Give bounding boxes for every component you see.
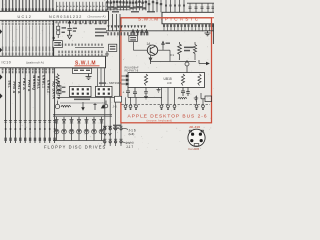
svg-text:SEL: SEL xyxy=(7,80,11,88)
wire horizontal feeding connector verticals xyxy=(57,96,122,98)
circled component with arrow x57 xyxy=(55,101,59,109)
down arrow mid block xyxy=(82,102,84,110)
svg-text:J-1 7: J-1 7 xyxy=(126,145,133,149)
wire vertical x119.5 long xyxy=(119,31,121,98)
circle with stem x106 xyxy=(104,101,108,108)
label fuse rating xyxy=(184,47,194,52)
fuse F1 zigzag element xyxy=(178,42,182,60)
small box above J-5 xyxy=(115,96,122,102)
svg-text:(jaaknndi-A): (jaaknndi-A) xyxy=(26,60,44,64)
tiny text block right of C41 xyxy=(95,28,107,36)
svg-text:ENBL2: ENBL2 xyxy=(47,80,51,93)
diode row A right block xyxy=(55,120,103,124)
small box left of red edge xyxy=(109,44,117,51)
wire vertical bus at x53.5 xyxy=(53,20,55,56)
component blobs in top cluster row 1 xyxy=(106,1,147,4)
rotated floppy signal name labels xyxy=(7,75,60,100)
svg-text:(left): (left) xyxy=(129,132,135,136)
svg-text:APPLE DESKTOP BUS 2-6: APPLE DESKTOP BUS 2-6 xyxy=(128,113,208,119)
pin number smear row UC12 top-left xyxy=(2,8,54,11)
scan speckle texture xyxy=(0,0,214,150)
red annotation box around ADB section xyxy=(121,18,212,123)
leader arrow to J-16 label xyxy=(123,128,129,131)
small box lower right inside red xyxy=(201,93,212,102)
power triangle filled xyxy=(101,104,106,108)
stub smear row below y31 xyxy=(107,32,148,35)
wire verticals SWIM to footprint 2 xyxy=(98,68,105,86)
connector entry marks row y121 left block xyxy=(4,121,56,123)
mini-DIN key notch xyxy=(194,144,199,146)
mini-DIN shoulder tabs xyxy=(189,130,203,132)
wire verticals filter box to ADB pins xyxy=(162,88,175,102)
capacitor pair below filter middle xyxy=(181,88,190,97)
wire horizontal rail y115 right block xyxy=(53,114,112,116)
blobs top right cluster x148-162 xyxy=(148,1,162,5)
wire verticals right block to floppy drives xyxy=(57,117,102,141)
bus entry triangle left edge lower xyxy=(0,93,3,98)
svg-text:(mouse, keyboard): (mouse, keyboard) xyxy=(147,119,173,123)
red underline S.W.I.M xyxy=(75,65,100,67)
wire horizontal rail y116.5 right block xyxy=(53,116,112,118)
diode below Q1 xyxy=(149,55,152,64)
svg-text:WRREQ: WRREQ xyxy=(32,75,36,90)
pin number smear row UC12 bottom-left xyxy=(2,21,54,25)
filter input pins with arrows xyxy=(122,75,129,85)
resistor element right xyxy=(193,42,196,60)
down arrow row below NCR right xyxy=(107,25,145,28)
wire horizontal y30.8 below PIC xyxy=(154,30,214,32)
circle component above filter xyxy=(185,60,189,73)
svg-text:UC12: UC12 xyxy=(18,15,33,19)
wire pin comb UC12 top-right pins xyxy=(57,2,108,12)
power arrow +5 for fuse xyxy=(162,42,165,49)
transistor Q1 xyxy=(147,45,157,55)
wire horizontal y9.8 top cluster xyxy=(106,9,130,11)
tiny text smears below red box left xyxy=(113,125,121,129)
junction dots row y129 left block xyxy=(5,128,56,130)
wire from SMD box to Q1 xyxy=(132,42,134,51)
small box SMD inside red box xyxy=(129,35,137,41)
svg-text:For ADB: For ADB xyxy=(189,147,200,150)
bus entry triangle left edge upper xyxy=(0,74,3,79)
pin number smear row SWIM top-left xyxy=(2,47,54,56)
wire bus UC12 to SWIM vertical wires xyxy=(3,25,53,56)
pin number smears row y139 left block xyxy=(4,138,55,141)
red annotation line top edge xyxy=(121,17,214,19)
svg-text:→ M9T294A: → M9T294A xyxy=(106,81,122,85)
tiny value labels top cluster xyxy=(112,11,155,13)
wire stubs above ADB pins xyxy=(126,97,137,101)
wire pin comb UC12 top-left dense pins xyxy=(3,0,53,11)
connector J-17 pin row symbols xyxy=(103,139,122,143)
resistor pack RP two small boxes xyxy=(57,86,61,94)
svg-text:ENBL1: ENBL1 xyxy=(42,75,46,88)
svg-text:IC10: IC10 xyxy=(2,61,12,65)
capacitor C41 xyxy=(67,29,71,36)
wire bus SWIM bottom-left floppy signals xyxy=(6,68,55,143)
label R40 value xyxy=(62,27,67,33)
wire horizontal above SWIM right xyxy=(75,47,104,49)
mini-DIN ADB connector circle xyxy=(188,129,205,146)
bus entry triangle left edge mid xyxy=(0,48,2,53)
pin dash row UC12 bottom-right xyxy=(56,21,107,24)
svg-text:LNF: LNF xyxy=(167,81,172,85)
svg-text:FLOPPY DISC DRIVES: FLOPPY DISC DRIVES xyxy=(44,145,106,150)
mini-DIN pins xyxy=(190,133,203,143)
ground below C41 xyxy=(67,35,71,39)
label +5 fuse xyxy=(166,43,171,44)
paper background xyxy=(0,0,214,150)
capacitor pair mid below filter xyxy=(144,88,148,96)
small box below SWIM with pins xyxy=(73,68,92,73)
resistor zigzag below SWIM xyxy=(56,74,59,86)
component blobs in top cluster row 2 xyxy=(108,6,146,10)
pin comb PIC ASIC bottom xyxy=(163,24,214,27)
wires top right cluster x148-162 xyxy=(149,0,161,12)
svg-text:PH2 A: PH2 A xyxy=(22,78,26,90)
svg-text:RD DATA: RD DATA xyxy=(51,81,55,99)
IC U C12 NCR SCSI controller body xyxy=(0,11,109,20)
wire joining fuse and resistor down to filter xyxy=(151,61,197,63)
text in GWCLK box xyxy=(54,42,61,46)
wire Q1 collector to fuse net xyxy=(158,49,170,51)
small box GWCLK xyxy=(53,41,62,48)
wire verticals left of red box edge xyxy=(109,14,121,31)
IC PIC ASIC body xyxy=(162,12,216,23)
wire verticals right pins to components xyxy=(196,96,198,102)
wire verticals to external floppy connectors xyxy=(105,97,121,146)
label C41 value xyxy=(73,28,77,32)
svg-text:J-5: J-5 xyxy=(113,105,117,109)
svg-text:+: + xyxy=(123,91,125,95)
wire horizontal below filter xyxy=(128,96,162,98)
connector footprint box 1 xyxy=(70,86,92,96)
capacitor row top right rail xyxy=(187,2,214,4)
bus entry triangle left edge top xyxy=(0,29,2,34)
svg-text:NCR0381232: NCR0381232 xyxy=(49,15,82,19)
pin number tick row UC12 top-right xyxy=(56,9,107,11)
connector J-16 pin row symbols xyxy=(103,126,122,130)
label small right of footprints xyxy=(99,82,106,83)
pin smear rows SWIM top-right xyxy=(58,44,102,56)
svg-text:F1: F1 xyxy=(171,53,175,57)
svg-text:UB15: UB15 xyxy=(164,77,172,81)
resistor zigzags inside filter xyxy=(144,74,147,86)
leader arrow to J-17 label xyxy=(123,142,128,143)
power arrow +5 above C41 xyxy=(68,21,71,28)
capacitor pair below filter left xyxy=(126,88,137,98)
horizontal resistor near connector row xyxy=(178,98,187,99)
svg-text:PH1 A: PH1 A xyxy=(17,82,21,94)
ground right of C41 small xyxy=(105,51,109,56)
svg-text:HDSEL: HDSEL xyxy=(37,76,41,90)
component cluster above red box xyxy=(108,0,146,10)
svg-text:PH0 A: PH0 A xyxy=(12,82,16,94)
ground below small box xyxy=(86,74,92,80)
ground below filter small 1 xyxy=(157,88,161,93)
svg-text:RD-PHY7-8: RD-PHY7-8 xyxy=(125,69,139,73)
svg-text:J9,J10: J9,J10 xyxy=(189,125,200,129)
ground mid below filter xyxy=(144,96,148,100)
svg-text:S.W.I.M - P I C A S I C: S.W.I.M - P I C A S I C xyxy=(138,17,199,22)
svg-text:(Jnosuru-A): (Jnosuru-A) xyxy=(88,15,106,19)
wire horizontal rail y140.5 right block xyxy=(53,140,104,142)
ground top right inside red box xyxy=(205,31,211,36)
pin number smear row SWIM bottom pins xyxy=(2,68,54,73)
tick symbol x95 xyxy=(93,103,96,110)
horizontal resistor coil xyxy=(61,106,71,108)
connector footprint box 2 xyxy=(96,86,113,96)
ground below filter small 2 xyxy=(194,96,198,101)
no-connect stubs below UC12 right xyxy=(74,20,106,23)
resistor R40 xyxy=(57,23,60,39)
label below connector footprints xyxy=(74,99,90,101)
arrow right top of filter xyxy=(199,60,209,65)
wire right edge short xyxy=(212,24,214,44)
ADB connector pin circles with stems and numbers xyxy=(124,101,204,108)
wire horizontal y30.8 left portion xyxy=(106,30,154,32)
ADB connector dashed line xyxy=(122,104,211,106)
wire pin comb PIC ASIC top xyxy=(165,0,185,12)
diode row B circled right block xyxy=(54,129,104,134)
IC IC10 SWIM body xyxy=(0,56,106,68)
V marks lower left outside red box xyxy=(104,126,112,136)
svg-text:PH3 A: PH3 A xyxy=(27,80,31,92)
filter IC UB15 body xyxy=(128,73,205,88)
up arrow group inside red box top left xyxy=(132,30,148,36)
junction dot on bus xyxy=(52,37,54,39)
